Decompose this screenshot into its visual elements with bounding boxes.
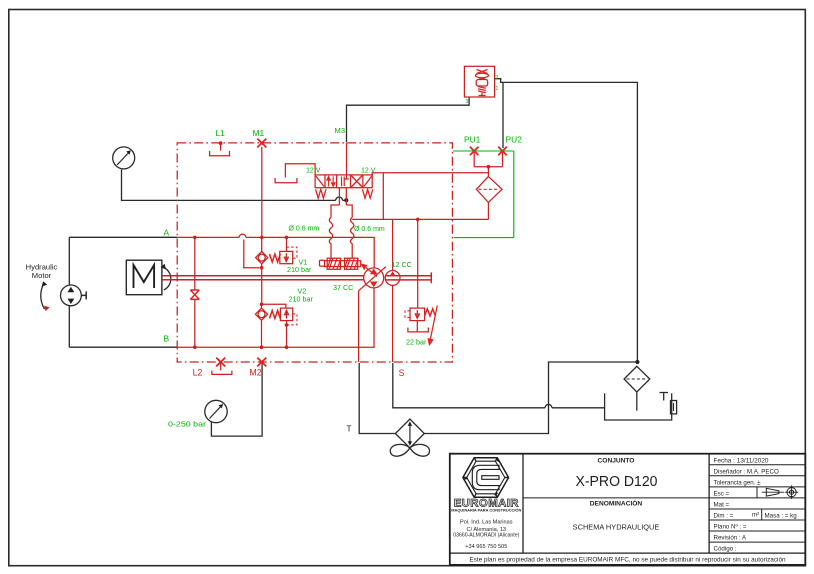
valve center port bars — [342, 177, 345, 187]
solenoid left diagonal — [316, 176, 324, 186]
junction dot A V1 — [285, 236, 289, 240]
svg-text:0-250 bar: 0-250 bar — [168, 420, 207, 429]
wire M1 to line A — [261, 147, 263, 237]
proportional valve body — [325, 261, 361, 267]
manifold block — [331, 205, 352, 217]
svg-text:m²: m² — [752, 512, 759, 519]
motor shaft stub — [81, 291, 86, 299]
svg-text:M3: M3 — [335, 126, 346, 135]
port M1 cross — [257, 139, 266, 148]
svg-text:1: 1 — [496, 86, 499, 92]
valve stubs to manifold — [339, 188, 346, 205]
wire suction S to tank — [393, 363, 545, 408]
gauge PG1 needle — [117, 153, 129, 165]
return filter element dashed — [627, 378, 648, 380]
valve arrows position 1 — [327, 176, 335, 186]
svg-text:PU1: PU1 — [464, 135, 481, 145]
check valve V2 — [255, 308, 267, 320]
svg-text:Diseñador : M.A. PECO: Diseñador : M.A. PECO — [714, 468, 780, 475]
svg-text:Este plan es propiedad de la e: Este plan es propiedad de la empresa EUR… — [469, 557, 786, 564]
junction dot B V2 — [285, 345, 289, 349]
relief valve 22bar — [410, 308, 425, 321]
svg-text:M1: M1 — [253, 128, 265, 138]
svg-text:DENOMINACIÓN: DENOMINACIÓN — [590, 499, 643, 508]
svg-text:L2: L2 — [193, 367, 203, 377]
cell divider denominacion — [523, 497, 709, 499]
junction dot relief feed — [416, 218, 420, 222]
junction dot A M1 — [260, 236, 264, 240]
title block frame — [450, 454, 806, 565]
hydraulic unit boundary dash-dot — [177, 143, 452, 362]
svg-text:2: 2 — [496, 75, 499, 81]
wire filter to manifold — [487, 203, 489, 220]
port PU2 cross — [498, 147, 507, 156]
pump P2 12cc — [385, 271, 400, 286]
wire jump over cooler line — [545, 404, 552, 407]
line B red segment — [177, 288, 374, 347]
shutoff line A-B — [194, 237, 196, 347]
svg-text:M2: M2 — [249, 367, 261, 377]
orifice right — [351, 217, 354, 258]
svg-text:+34 965 750 505: +34 965 750 505 — [465, 544, 507, 550]
wire regulator to return line — [495, 79, 638, 362]
relief valve V1 — [280, 251, 293, 263]
wire drop to PU2 — [502, 82, 504, 148]
solenoid right diagonal — [364, 176, 372, 186]
relief 22bar spring — [425, 309, 436, 316]
svg-text:Mat =: Mat = — [714, 502, 730, 509]
motor rotation arrowhead red — [44, 306, 49, 312]
drive shaft double line left — [162, 276, 364, 280]
svg-text:03660-ALMORADI (Alicante): 03660-ALMORADI (Alicante) — [453, 533, 519, 539]
gauge PG2 needle — [210, 406, 221, 418]
pump P1 variable diagonal — [359, 267, 386, 291]
wire relief 22bar feed — [417, 219, 419, 308]
wire return branch to cooler — [424, 362, 637, 434]
logo hexagon outer — [463, 458, 509, 497]
junction dot B M2 — [260, 345, 264, 349]
port M2 cross — [257, 358, 266, 367]
line A jump over bypass — [239, 234, 246, 237]
svg-text:Dim : =: Dim : = — [714, 513, 734, 520]
valve position X closed — [351, 175, 363, 188]
tank breather — [660, 393, 669, 401]
spring V2 — [270, 311, 281, 319]
shutoff valve closed symbol — [190, 290, 199, 299]
wire M2 test point to PG2 — [211, 364, 262, 437]
relief valve V2 — [280, 308, 292, 321]
wire regulator to M3 — [347, 97, 470, 142]
svg-text:Ø 0.6 mm: Ø 0.6 mm — [354, 226, 385, 233]
logo hexagon accents — [463, 458, 509, 497]
svg-text:3: 3 — [466, 99, 469, 105]
junction dot A x195 — [193, 236, 197, 240]
svg-text:Fecha : 13/11/2020: Fecha : 13/11/2020 — [714, 457, 770, 464]
svg-text:12 V: 12 V — [306, 168, 321, 175]
return filter diamond — [624, 366, 650, 392]
svg-text:MAQUINARIA PARA CONSTRUCCIÓN: MAQUINARIA PARA CONSTRUCCIÓN — [451, 508, 521, 513]
pilot filter element dashed — [479, 188, 500, 190]
junction dot V2 top — [260, 303, 264, 307]
masa cell divider — [761, 509, 763, 520]
wire V2 check vertical — [261, 304, 263, 347]
valve center inlet tee — [344, 143, 348, 179]
wire V2 branch — [262, 304, 286, 308]
relief 22bar arrow — [428, 306, 437, 345]
port L2 cross — [216, 358, 225, 367]
svg-text:22 bar: 22 bar — [406, 338, 427, 347]
svg-text:Revisión : A: Revisión : A — [714, 535, 748, 542]
port L1 plug — [210, 143, 230, 156]
wire filter to tank — [636, 392, 638, 411]
wire motor line A — [69, 236, 177, 238]
wire valve P to filter top — [372, 173, 488, 177]
svg-text:12 CC: 12 CC — [392, 260, 412, 269]
spring W left — [316, 189, 326, 198]
junction dot under valve — [344, 198, 348, 202]
svg-text:Tolerancia gen. ±: Tolerancia gen. ± — [714, 479, 762, 486]
cooler flow arrows — [409, 425, 411, 443]
fan propeller — [390, 444, 429, 456]
wire V2 to line B — [286, 321, 288, 348]
pump P1 37cc — [364, 268, 384, 288]
svg-text:L1: L1 — [216, 128, 226, 138]
pump P2 suction line — [392, 285, 394, 362]
svg-text:210 bar: 210 bar — [289, 295, 314, 304]
junction dot V1 bottom — [260, 266, 264, 270]
esc cell divider — [756, 487, 758, 498]
wire valve P down — [382, 173, 384, 220]
displacement control arrow — [362, 264, 377, 276]
pilot dashed V2 — [287, 314, 297, 325]
wire jump over valve stub — [336, 197, 343, 200]
orifice left — [329, 217, 332, 258]
logo hexagon inner — [467, 461, 505, 494]
pressure gauge PG1 — [113, 147, 135, 169]
pilot dashed V1 — [287, 247, 298, 258]
line A red segment — [177, 236, 239, 238]
wire PG1 to node under valve — [122, 170, 336, 201]
vent cup — [275, 178, 297, 183]
junction dot PU — [487, 165, 491, 169]
svg-text:Código :: Código : — [714, 546, 737, 553]
port L1 dot — [219, 141, 223, 145]
return junction dot — [635, 360, 639, 364]
junction dot B x195 — [193, 345, 197, 349]
svg-text:B: B — [164, 334, 170, 344]
electric motor box M — [126, 260, 162, 295]
wire PU green supply — [453, 151, 514, 238]
relief 22bar drain — [408, 321, 428, 332]
svg-text:A: A — [164, 228, 170, 238]
PU ports bracket — [474, 151, 502, 176]
pressure regulator box — [464, 66, 494, 97]
svg-text:SCHEMA HYDRAULIQUE: SCHEMA HYDRAULIQUE — [573, 523, 660, 532]
motor rotation arc black — [41, 284, 45, 309]
port PU1 cross — [470, 147, 479, 156]
supply manifold line — [352, 218, 488, 220]
motor shaft rotation arc — [164, 268, 171, 291]
svg-text:Esc =: Esc = — [714, 491, 730, 498]
projection symbol cone — [766, 488, 779, 496]
proportional valve hatched block left — [327, 258, 340, 269]
wire motor line B — [69, 346, 177, 348]
projection symbol target — [787, 488, 796, 497]
shaft end bar — [430, 272, 432, 283]
check valve V1 — [256, 252, 268, 264]
valve pilot drain to vent — [285, 164, 315, 178]
hydraulic motor symbol — [61, 285, 82, 306]
svg-text:12 V: 12 V — [361, 168, 376, 175]
check valve V1 bypass — [244, 240, 260, 268]
proportional valve hatched block right — [345, 258, 358, 269]
svg-text:37 CC: 37 CC — [333, 283, 353, 292]
relief 22bar pilot dashed — [405, 311, 410, 318]
pump P1 case drain — [358, 291, 360, 362]
wire A to V1 — [286, 237, 288, 251]
svg-text:Masa : = kg: Masa : = kg — [765, 513, 798, 520]
regulator internals — [477, 70, 488, 74]
svg-text:Ø 0.6 mm: Ø 0.6 mm — [289, 226, 320, 233]
svg-text:Motor: Motor — [32, 271, 52, 280]
right column row lines — [709, 465, 805, 542]
test gauge PG2 — [205, 400, 227, 422]
wire V1 check vertical — [261, 237, 263, 304]
logo letter E — [472, 465, 499, 489]
spring V1 — [270, 254, 281, 262]
junction dot V2 drain — [285, 323, 289, 327]
pilot filter diamond — [476, 176, 502, 202]
port L2 plug — [212, 362, 232, 374]
spring W right — [362, 189, 372, 198]
wire T drain to cooler — [359, 363, 395, 434]
proportional valve left port — [320, 260, 325, 266]
drive shaft double line right — [386, 276, 432, 280]
svg-text:Pol. Ind. Las Marinas: Pol. Ind. Las Marinas — [460, 520, 513, 526]
svg-text:X-PRO D120: X-PRO D120 — [576, 473, 658, 490]
svg-text:CONJUNTO: CONJUNTO — [598, 457, 635, 464]
tank — [605, 393, 672, 420]
svg-text:S: S — [399, 368, 405, 378]
solenoid valve EV1 body — [315, 175, 372, 188]
svg-text:T: T — [346, 424, 352, 434]
wire motor left vertical — [68, 237, 70, 347]
svg-text:PU2: PU2 — [506, 135, 523, 145]
pump P2 inlet line — [392, 219, 394, 270]
svg-text:Plano Nº : =: Plano Nº : = — [714, 524, 747, 531]
cooler diamond — [395, 419, 424, 448]
svg-text:210 bar: 210 bar — [287, 265, 312, 274]
